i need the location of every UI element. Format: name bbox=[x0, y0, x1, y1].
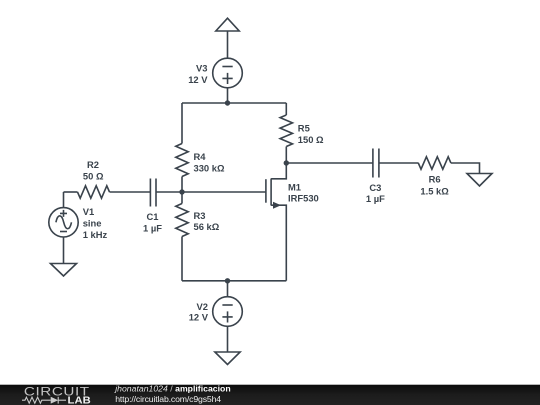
svg-text:C3: C3 bbox=[369, 182, 381, 193]
svg-text:50 Ω: 50 Ω bbox=[83, 170, 104, 181]
svg-text:LAB: LAB bbox=[68, 395, 92, 405]
svg-text:sine: sine bbox=[83, 217, 102, 228]
svg-text:IRF530: IRF530 bbox=[288, 192, 319, 203]
svg-text:1 µF: 1 µF bbox=[143, 223, 162, 234]
svg-text:12 V: 12 V bbox=[188, 74, 208, 85]
svg-text:R4: R4 bbox=[194, 151, 207, 162]
svg-text:1 µF: 1 µF bbox=[366, 193, 385, 204]
svg-text:http://circuitlab.com/c9gs5h4: http://circuitlab.com/c9gs5h4 bbox=[115, 394, 221, 404]
svg-text:330 kΩ: 330 kΩ bbox=[194, 162, 225, 173]
svg-text:R3: R3 bbox=[194, 210, 206, 221]
svg-text:56 kΩ: 56 kΩ bbox=[194, 221, 220, 232]
svg-text:R2: R2 bbox=[87, 159, 99, 170]
svg-text:V1: V1 bbox=[83, 206, 94, 217]
svg-text:C1: C1 bbox=[147, 211, 159, 222]
svg-text:1.5 kΩ: 1.5 kΩ bbox=[420, 185, 449, 196]
svg-text:1 kHz: 1 kHz bbox=[83, 229, 108, 240]
svg-text:V2: V2 bbox=[197, 301, 208, 312]
svg-text:R6: R6 bbox=[429, 173, 441, 184]
svg-text:jhonatan1024 / amplificacion: jhonatan1024 / amplificacion bbox=[114, 384, 230, 394]
svg-text:12 V: 12 V bbox=[189, 312, 209, 323]
svg-text:R5: R5 bbox=[298, 122, 310, 133]
svg-text:M1: M1 bbox=[288, 182, 301, 193]
svg-text:150 Ω: 150 Ω bbox=[298, 134, 324, 145]
svg-text:V3: V3 bbox=[196, 63, 207, 74]
